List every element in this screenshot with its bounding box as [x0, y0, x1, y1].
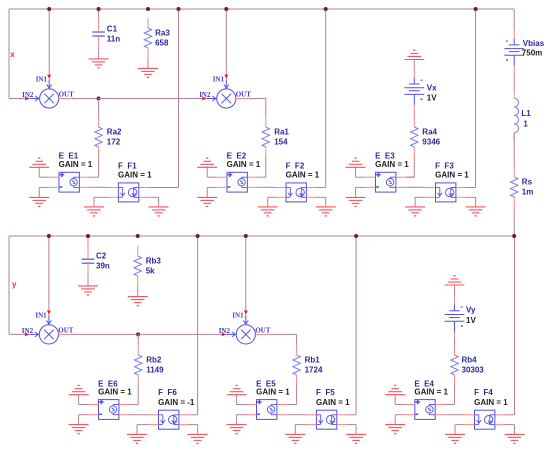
- ground (inverted) above Vy: [445, 276, 465, 285]
- label E5: [256, 379, 290, 396]
- svg-text:F F4: F F4: [474, 388, 493, 397]
- voltage source Vy label: [466, 306, 476, 325]
- svg-text:F F1: F F1: [118, 162, 137, 171]
- controlled source E5 (E): [247, 400, 287, 420]
- svg-text:154: 154: [274, 138, 288, 147]
- wire E5 out+ to resistor: [287, 404, 297, 406]
- voltage source Vbias: [504, 31, 524, 74]
- svg-text:GAIN = 1: GAIN = 1: [286, 170, 320, 179]
- svg-text:OUT: OUT: [255, 326, 271, 334]
- wire C1 to ground: [98, 46, 100, 59]
- wire Ra1 to E2 ctrl+: [265, 157, 267, 177]
- svg-text:C1: C1: [107, 25, 118, 34]
- wire F6 out- to ground: [189, 425, 198, 435]
- wire E6 out+ to resistor: [129, 404, 138, 406]
- svg-text:9346: 9346: [422, 138, 440, 147]
- svg-text:GAIN = 1: GAIN = 1: [98, 388, 132, 397]
- svg-text:Ra4: Ra4: [422, 128, 437, 137]
- svg-text:OUT: OUT: [59, 91, 75, 99]
- wire E2 out+ to resistor: [257, 176, 265, 178]
- svg-text:Rs: Rs: [522, 178, 533, 187]
- svg-text:F F6: F F6: [158, 388, 177, 397]
- label E1: [59, 151, 93, 168]
- resistor Ra2 label: [107, 128, 122, 147]
- svg-text:OUT: OUT: [236, 91, 252, 99]
- wire F1 out+ up to top bus: [149, 9, 179, 188]
- voltage source Vx: [404, 70, 424, 113]
- svg-text:GAIN = 1: GAIN = 1: [375, 160, 409, 169]
- resistor Ra4: [411, 117, 418, 157]
- svg-text:Vy: Vy: [466, 306, 476, 315]
- ground below E5 ctrl: [227, 425, 247, 434]
- wire Rb1 to E5 ctrl+: [296, 385, 298, 404]
- svg-text:GAIN = 1: GAIN = 1: [59, 160, 93, 169]
- wire inverted ground to E6 pin+: [79, 395, 89, 405]
- node M3 output junction: [136, 332, 140, 336]
- resistor Rb2 label: [146, 356, 164, 375]
- wire inverted ground to E3 pin+: [356, 167, 366, 177]
- ground (inverted) above Vx: [404, 50, 424, 59]
- controlled source E6 (E): [89, 400, 129, 420]
- ground below F2 output: [316, 207, 336, 216]
- wire M4 OUT corner to Rb1: [268, 334, 296, 345]
- wire E3 out- to F3 in+: [406, 186, 426, 188]
- ground below F3 input: [405, 207, 425, 216]
- wire E2 pin- to ground: [207, 187, 217, 197]
- inductor L1 label: [521, 109, 531, 129]
- wire E1 out+ to resistor: [89, 176, 98, 178]
- wire inverted ground to E5 pin+: [237, 395, 247, 405]
- controlled source F4 (F): [465, 410, 505, 429]
- wire F3 in- to ground: [415, 197, 425, 207]
- svg-text:750m: 750m: [522, 49, 542, 58]
- svg-text:30303: 30303: [462, 366, 485, 375]
- wire M3 IN2 feed: [9, 333, 27, 335]
- wire M1 IN2 feed: [9, 98, 27, 100]
- ground under C2: [78, 286, 98, 295]
- ground below F1 input: [84, 207, 104, 216]
- svg-text:GAIN = -1: GAIN = -1: [158, 398, 195, 407]
- wire M1 out to M2 IN2: [99, 98, 204, 100]
- resistor Rb1: [293, 345, 300, 385]
- ground (inverted) above E6 ctrl: [69, 385, 89, 394]
- resistor Ra1: [262, 117, 269, 157]
- multiplier MULT3 pin labels IN1 IN2 OUT: [22, 312, 74, 335]
- svg-text:1: 1: [523, 119, 528, 128]
- svg-text:GAIN = 1: GAIN = 1: [118, 170, 152, 179]
- svg-text:C2: C2: [96, 252, 107, 261]
- svg-text:L1: L1: [521, 109, 531, 118]
- resistor Rs label: [522, 178, 534, 197]
- svg-text:GAIN = 1: GAIN = 1: [414, 388, 448, 397]
- ground below F1 output: [149, 207, 169, 216]
- wire E4 out+ to resistor: [445, 404, 454, 406]
- wire M3 junction to Rb2: [137, 334, 139, 345]
- ground (inverted) above E4 ctrl: [385, 385, 405, 394]
- wire F3 out- to ground: [466, 197, 476, 207]
- label F4: [474, 388, 508, 407]
- svg-text:Rb1: Rb1: [305, 356, 321, 365]
- wire E1 pin- to ground: [39, 187, 49, 197]
- ground below E3 ctrl: [346, 197, 366, 206]
- wire inverted ground to E4 pin+: [395, 395, 405, 405]
- multiplier MULT1: [25, 75, 72, 109]
- ground below F5 input: [285, 434, 305, 443]
- svg-text:Ra1: Ra1: [274, 128, 289, 137]
- wire M1 IN1 drop: [48, 9, 50, 74]
- wire C2 to ground: [87, 273, 89, 286]
- ground under Ra3: [138, 68, 158, 77]
- capacitor C1: [92, 18, 105, 46]
- node y label: [12, 280, 17, 289]
- svg-text:Ra3: Ra3: [155, 29, 170, 38]
- multiplier MULT3: [25, 310, 72, 344]
- label F6: [158, 388, 195, 407]
- wire M2 IN1 drop: [225, 9, 227, 74]
- wire Vx to Ra4: [413, 113, 415, 118]
- label F3: [435, 162, 469, 180]
- wire M3 IN1 drop: [48, 236, 50, 310]
- wire F6 in- to ground: [137, 425, 149, 435]
- resistor Ra3: [144, 18, 151, 58]
- wire top bus right corner down: [513, 9, 515, 31]
- svg-text:1724: 1724: [305, 366, 323, 375]
- wire M1 junction to Ra2: [98, 99, 100, 118]
- resistor Ra4 label: [422, 128, 440, 147]
- svg-text:172: 172: [107, 138, 121, 147]
- wire E1 out- to F1 in+: [89, 186, 108, 188]
- controlled source E1 (E): [49, 172, 89, 192]
- svg-text:GAIN = 1: GAIN = 1: [227, 160, 261, 169]
- capacitor C2: [82, 245, 95, 273]
- wire Rb4 to E4 ctrl+: [446, 385, 455, 404]
- wire F5 in- to ground: [295, 425, 306, 435]
- svg-text:1149: 1149: [146, 366, 164, 375]
- svg-text:Ra2: Ra2: [107, 128, 122, 137]
- wire F1 out- to ground: [149, 197, 159, 207]
- label E6: [98, 379, 132, 396]
- wire inverted ground to E2 pin+: [207, 167, 217, 177]
- wire Rs to bottom bus: [513, 207, 515, 236]
- svg-text:IN1: IN1: [36, 76, 48, 84]
- wire F2 in- to ground: [268, 197, 276, 207]
- ground below F2 input: [258, 207, 278, 216]
- controlled source F2 (F): [276, 183, 316, 202]
- multiplier MULT1 pin labels IN1 IN2 OUT: [22, 76, 74, 99]
- wire left vertical (net y): [8, 236, 10, 334]
- multiplier MULT2 pin labels IN1 IN2 OUT: [199, 76, 251, 99]
- svg-text:IN2: IN2: [219, 327, 231, 335]
- wire Ra3 to ground: [147, 58, 149, 68]
- svg-text:11n: 11n: [107, 35, 120, 44]
- wire Vx top: [413, 60, 415, 71]
- label F1: [118, 162, 152, 180]
- wire F5 out- to ground: [347, 425, 356, 435]
- controlled source F3 (F): [426, 183, 466, 202]
- resistor Rb3 label: [146, 257, 162, 276]
- wire F2 out+ up to top bus: [316, 9, 325, 188]
- svg-text:5k: 5k: [146, 267, 155, 276]
- ground below E6 ctrl: [69, 425, 89, 434]
- wire Vy top: [454, 285, 456, 297]
- svg-text:IN2: IN2: [22, 327, 34, 335]
- ground below F5 output: [346, 434, 366, 443]
- resistor Rb4 label: [462, 356, 485, 375]
- wire E6 pin- to ground: [79, 415, 89, 425]
- controlled source E2 (E): [217, 172, 257, 192]
- wire E5 pin- to ground: [237, 415, 247, 425]
- controlled source F5 (F): [306, 410, 346, 429]
- node dots on top bus: [47, 7, 477, 11]
- controlled source F1 (F): [108, 183, 148, 202]
- voltage source Vbias label: [522, 39, 545, 58]
- wire inverted ground to E1 pin+: [39, 167, 49, 177]
- resistor Rb3: [134, 246, 141, 286]
- resistor Rs: [511, 167, 518, 207]
- wire Ra2 to E1 ctrl+: [98, 157, 100, 177]
- ground below F3 output: [466, 207, 486, 216]
- svg-text:1m: 1m: [522, 188, 534, 197]
- wire E5 out- to F5 in+: [287, 414, 307, 416]
- label F2: [286, 162, 320, 180]
- wire E6 out- to F6 in+: [129, 414, 149, 416]
- voltage source Vy: [445, 297, 465, 340]
- resistor Ra3 label: [155, 29, 170, 48]
- wire top bus to C1: [98, 9, 100, 19]
- svg-text:F F3: F F3: [435, 162, 454, 171]
- svg-text:Rb2: Rb2: [146, 356, 162, 365]
- multiplier MULT2: [202, 75, 249, 109]
- multiplier MULT4: [222, 310, 269, 344]
- wire E2 out- to F2 in+: [257, 186, 276, 188]
- wire M2 OUT corner to Ra1: [249, 99, 266, 118]
- wire M3 out to M4 IN2: [138, 333, 222, 335]
- svg-text:39n: 39n: [96, 262, 110, 271]
- svg-text:1V: 1V: [466, 316, 476, 325]
- resistor Rb2: [135, 345, 142, 385]
- wire M4 IN1 drop: [245, 236, 247, 310]
- svg-text:x: x: [10, 50, 15, 59]
- wire Rb2 to E6 ctrl+: [137, 385, 139, 404]
- label E2: [227, 151, 261, 168]
- svg-text:Rb4: Rb4: [462, 356, 478, 365]
- wire F3 out+ up to top bus: [466, 9, 476, 188]
- resistor Rb4: [451, 345, 458, 385]
- wire bottom bus to C2: [87, 236, 89, 246]
- ground below F4 output: [505, 434, 525, 443]
- svg-text:OUT: OUT: [58, 326, 74, 334]
- ground below E4 ctrl: [385, 425, 405, 434]
- wire M1 OUT to junction: [72, 98, 99, 100]
- capacitor C1 label: [107, 25, 120, 44]
- wire F4 out- to ground: [505, 425, 515, 435]
- ground (inverted) above E2 ctrl: [197, 158, 217, 167]
- svg-text:Rb3: Rb3: [146, 257, 162, 266]
- svg-text:IN1: IN1: [213, 76, 225, 84]
- wire F4 in- to ground: [455, 425, 465, 435]
- wire F4 out+ up to bottom bus: [505, 236, 515, 415]
- voltage source Vx label: [427, 84, 437, 103]
- svg-text:IN2: IN2: [199, 91, 211, 99]
- svg-text:GAIN = 1: GAIN = 1: [256, 388, 290, 397]
- label E3: [375, 151, 409, 168]
- ground below F6 output: [188, 434, 208, 443]
- resistor Rb1 label: [305, 356, 323, 375]
- svg-text:F F2: F F2: [286, 162, 305, 171]
- svg-text:Vbias: Vbias: [523, 39, 545, 48]
- controlled source F6 (F): [149, 410, 189, 429]
- svg-text:GAIN = 1: GAIN = 1: [316, 398, 350, 407]
- wire E4 pin- to ground: [395, 415, 405, 425]
- wire E3 out+ to resistor: [406, 176, 414, 178]
- label F5: [316, 388, 350, 407]
- svg-text:Vx: Vx: [427, 84, 437, 93]
- svg-text:y: y: [12, 280, 17, 289]
- inductor L1: [514, 90, 518, 140]
- wire F2 out- to ground: [316, 197, 325, 207]
- svg-text:658: 658: [155, 39, 169, 48]
- ground under C1: [89, 59, 109, 68]
- node M1 output junction: [97, 97, 101, 101]
- wire F1 in- to ground: [94, 197, 108, 207]
- ground under Rb3: [128, 297, 148, 306]
- ground (inverted) above E1 ctrl: [29, 158, 49, 167]
- wire E4 out- to F4 in+: [445, 414, 464, 416]
- ground below E1 ctrl: [29, 197, 49, 206]
- node x label: [10, 50, 15, 59]
- svg-text:1V: 1V: [427, 94, 437, 103]
- wire L1 to Rs: [513, 133, 515, 167]
- svg-text:IN1: IN1: [35, 312, 47, 320]
- resistor Ra1 label: [274, 128, 289, 147]
- wire Vy to Rb4: [454, 340, 456, 346]
- label E4: [414, 379, 448, 396]
- resistor Ra2: [95, 117, 102, 157]
- svg-text:GAIN = 1: GAIN = 1: [435, 170, 469, 179]
- wire Vbias to L1: [513, 74, 515, 92]
- svg-text:F F5: F F5: [316, 388, 335, 397]
- wire Ra4 to E3 ctrl+: [406, 157, 414, 177]
- node dots on bottom bus: [47, 234, 516, 238]
- controlled source E4 (E): [405, 400, 445, 420]
- wire bottom bus: [9, 235, 514, 237]
- controlled source E3 (E): [366, 172, 406, 192]
- ground below E2 ctrl: [197, 197, 217, 206]
- multiplier MULT4 pin labels IN1 IN2 OUT: [219, 312, 271, 335]
- svg-text:IN2: IN2: [22, 91, 34, 99]
- ground below F4 input: [445, 434, 465, 443]
- wire F6 out+ up to bottom bus: [189, 236, 198, 415]
- wire Rb3 to ground: [137, 286, 139, 297]
- wire M3 OUT to junction: [72, 333, 139, 335]
- wire E3 pin- to ground: [356, 187, 366, 197]
- capacitor C2 label: [96, 252, 110, 271]
- ground below F6 input: [127, 434, 147, 443]
- wire left vertical (net x): [8, 9, 10, 99]
- ground (inverted) above E5 ctrl: [227, 385, 247, 394]
- ground (inverted) above E3 ctrl: [346, 158, 366, 167]
- wire F5 out+ up to bottom bus: [347, 236, 356, 415]
- svg-text:GAIN = 1: GAIN = 1: [474, 398, 508, 407]
- wire top bus: [9, 8, 514, 10]
- svg-text:IN1: IN1: [232, 312, 244, 320]
